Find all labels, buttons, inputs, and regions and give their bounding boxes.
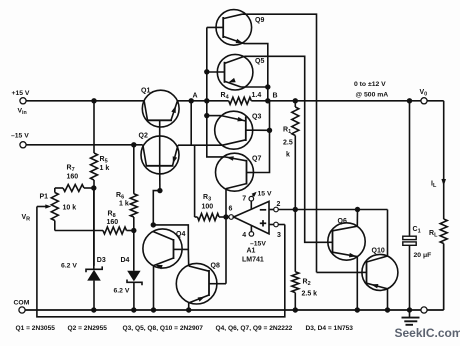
resistor R7 bbox=[63, 165, 94, 192]
transistor Q1 bbox=[141, 88, 179, 136]
junction Q5 base bbox=[204, 69, 209, 74]
svg-text:1 k: 1 k bbox=[100, 165, 110, 172]
junction Q4/COM bbox=[151, 307, 156, 312]
svg-text:@ 500 mA: @ 500 mA bbox=[356, 92, 389, 99]
junction pin2/Q6 collector bbox=[355, 207, 360, 212]
wire node A to R4 bbox=[177, 100, 228, 102]
svg-text:20 μF: 20 μF bbox=[414, 252, 432, 259]
svg-text:k: k bbox=[286, 152, 290, 159]
wiper arrow P1 bbox=[37, 204, 51, 208]
transistor Q5 bbox=[207, 54, 265, 90]
junction B-line/R1 bbox=[293, 98, 298, 103]
wire Q8 emitter bbox=[188, 303, 191, 310]
svg-text:Q5: Q5 bbox=[255, 58, 264, 65]
wire C1 bottom bbox=[409, 245, 411, 310]
junction Q4 base node bbox=[151, 222, 156, 227]
wire Q6 emitter bbox=[356, 257, 358, 310]
zener D4 bbox=[114, 257, 143, 310]
op-amp A1 triangle bbox=[234, 201, 269, 233]
wire Q4 base loop bbox=[153, 225, 188, 250]
svg-text:SeekIC.com: SeekIC.com bbox=[395, 326, 460, 340]
pin 2 bbox=[269, 201, 281, 212]
resistor R4 bbox=[221, 92, 262, 104]
wire Q2 lead to Q3 collector bbox=[178, 144, 223, 146]
wire R6 top bbox=[133, 145, 135, 194]
junction COM corner bbox=[443, 244, 445, 311]
wire pin2 to Q10 collector bbox=[387, 210, 389, 257]
capacitor C1 bbox=[403, 226, 431, 259]
svg-text:Q1: Q1 bbox=[141, 88, 150, 95]
transistor Q10 bbox=[362, 248, 398, 291]
resistor R2 bbox=[292, 210, 317, 311]
svg-text:+15 V: +15 V bbox=[12, 90, 30, 97]
resistor R1 bbox=[283, 101, 299, 159]
svg-text:3: 3 bbox=[277, 232, 281, 239]
transistor Q6 bbox=[328, 218, 365, 260]
svg-text:Q6: Q6 bbox=[338, 218, 347, 225]
terminal COM right bbox=[421, 307, 427, 313]
ground bbox=[402, 310, 420, 325]
terminal V0 bbox=[420, 89, 428, 104]
svg-text:Q2 = 2N2955: Q2 = 2N2955 bbox=[68, 325, 108, 332]
wire R6 to D4 bbox=[133, 217, 135, 271]
svg-text:–15 V: –15 V bbox=[11, 133, 29, 140]
svg-text:Q7: Q7 bbox=[252, 156, 261, 163]
transistor Q7 bbox=[216, 153, 262, 191]
resistor R6 bbox=[116, 192, 137, 217]
junction D3/COM bbox=[91, 307, 96, 312]
op-amp plus input symbol bbox=[260, 220, 266, 226]
wire VR to op-amp +input bbox=[37, 207, 285, 317]
junction Q5 emitter/B column bbox=[265, 84, 270, 89]
svg-text:Q9: Q9 bbox=[255, 17, 264, 24]
junction Q2 base node bbox=[157, 188, 162, 193]
wire Q9 collector bbox=[242, 14, 317, 272]
svg-text:4: 4 bbox=[242, 232, 246, 239]
svg-text:A: A bbox=[193, 93, 198, 100]
svg-text:Q2: Q2 bbox=[139, 133, 148, 140]
svg-text:6: 6 bbox=[229, 206, 233, 213]
svg-text:Q3, Q5, Q8, Q10 = 2N2907: Q3, Q5, Q8, Q10 = 2N2907 bbox=[123, 325, 204, 332]
svg-text:2.5: 2.5 bbox=[283, 140, 293, 147]
svg-text:0 to ±12 V: 0 to ±12 V bbox=[354, 81, 386, 88]
junction pin2/R1R2 bbox=[293, 207, 298, 212]
wire Q5 emitter bbox=[241, 86, 268, 88]
pin 4 bbox=[242, 226, 266, 248]
junction D4/COM bbox=[131, 307, 136, 312]
wire B to V0 bbox=[268, 100, 444, 102]
svg-text:160: 160 bbox=[67, 174, 79, 181]
svg-text:1.4: 1.4 bbox=[252, 92, 262, 99]
svg-text:Q4, Q6, Q7, Q9 = 2N2222: Q4, Q6, Q7, Q9 = 2N2222 bbox=[216, 325, 293, 332]
transistor Q9 bbox=[207, 10, 265, 46]
wire pin2 line bbox=[278, 209, 387, 211]
label A1 bbox=[247, 248, 256, 255]
svg-text:15 V: 15 V bbox=[258, 191, 272, 198]
pin 6 bbox=[229, 206, 234, 220]
svg-text:10 k: 10 k bbox=[63, 205, 77, 212]
wire Q10 emitter bbox=[387, 289, 389, 310]
wire R4 to B bbox=[251, 100, 267, 102]
label VR bbox=[22, 214, 31, 223]
wire A drop to Q2 bbox=[190, 101, 192, 145]
transistor Q3 bbox=[215, 111, 270, 149]
junction R8/R6/D4 bbox=[131, 228, 136, 233]
svg-text:D3, D4 = 1N753: D3, D4 = 1N753 bbox=[306, 325, 354, 332]
wire Q10 base bbox=[317, 271, 362, 273]
junction pin6/Q8 base bbox=[223, 214, 228, 219]
wire V0 right drop bbox=[443, 101, 445, 219]
wire R1 to pin2 bbox=[294, 136, 296, 210]
wire RL to COM bbox=[443, 244, 445, 311]
wire Q8 collector bbox=[187, 249, 189, 266]
op-amp minus input symbol bbox=[260, 209, 266, 211]
svg-text:160: 160 bbox=[107, 219, 119, 226]
junction Q8/COM bbox=[186, 307, 191, 312]
node B bbox=[265, 93, 277, 104]
svg-text:2: 2 bbox=[277, 201, 281, 208]
wire Q5 collector to Q6 base bbox=[245, 56, 329, 242]
svg-text:Q8: Q8 bbox=[211, 263, 220, 270]
svg-text:100: 100 bbox=[202, 204, 214, 211]
svg-text:P1: P1 bbox=[40, 194, 49, 201]
junction A/Q9Q5-base column bbox=[204, 98, 209, 103]
wire C1 top bbox=[409, 101, 411, 236]
wire Q6 collector bbox=[356, 210, 358, 227]
wire P1 bottom bbox=[55, 230, 103, 232]
wire -15V rail bbox=[26, 144, 142, 146]
wire R5 top bbox=[93, 101, 95, 153]
wire Q2 base to Q4 node bbox=[153, 191, 160, 225]
label Vin bbox=[18, 108, 27, 117]
svg-text:6.2 V: 6.2 V bbox=[61, 263, 77, 270]
svg-text:LM741: LM741 bbox=[242, 257, 264, 264]
terminal -15V input bbox=[11, 133, 29, 148]
junction R2/COM bbox=[293, 307, 298, 312]
pin 3 bbox=[269, 222, 281, 239]
svg-text:B: B bbox=[273, 93, 278, 100]
resistor R3 bbox=[195, 194, 219, 221]
svg-text:A1: A1 bbox=[247, 248, 256, 255]
resistor RL bbox=[429, 219, 447, 244]
pin 7 bbox=[242, 191, 272, 210]
transistor Q2 bbox=[139, 133, 180, 191]
wire Q7 collector to pin6 node bbox=[225, 189, 227, 217]
resistor R5 bbox=[91, 153, 110, 180]
svg-text:D3: D3 bbox=[97, 257, 106, 264]
wire pin3 stub bbox=[278, 224, 285, 226]
svg-text:D4: D4 bbox=[121, 257, 130, 264]
svg-text:Q10: Q10 bbox=[372, 248, 385, 255]
terminal +15V input bbox=[12, 90, 30, 104]
wire Q3 emitter bbox=[207, 115, 221, 117]
svg-text:2.5 k: 2.5 k bbox=[302, 291, 318, 298]
caption transistor types bbox=[16, 325, 293, 332]
wire +15V rail bbox=[26, 100, 144, 102]
label LM741 bbox=[242, 257, 264, 264]
terminal COM bbox=[14, 300, 30, 314]
transistor Q4 bbox=[143, 229, 186, 270]
wire A column to Q7 emitter bbox=[206, 101, 208, 157]
wire COM rail bbox=[25, 309, 444, 311]
wire Q8 base up bbox=[225, 217, 227, 284]
svg-text:Q1 = 2N3055: Q1 = 2N3055 bbox=[16, 325, 56, 332]
svg-text:Q4: Q4 bbox=[176, 231, 185, 238]
resistor R8 bbox=[103, 211, 134, 235]
node A bbox=[189, 93, 198, 104]
svg-text:–15V: –15V bbox=[250, 241, 266, 248]
junction Q10/COM bbox=[385, 307, 390, 312]
potentiometer P1 bbox=[40, 188, 77, 231]
watermark SeekIC.com bbox=[395, 326, 460, 340]
junction Q6/COM bbox=[355, 307, 360, 312]
wire R5 to R7 junction bbox=[93, 180, 95, 266]
wire Q9Q5 base column bbox=[206, 27, 208, 100]
junction +15V/R5 bbox=[91, 98, 96, 103]
svg-text:COM: COM bbox=[14, 300, 30, 307]
wire R3 to pin6 bbox=[219, 216, 229, 218]
svg-text:6.2 V: 6.2 V bbox=[114, 288, 130, 295]
wire Q4 emitter bbox=[153, 266, 155, 310]
wire B column down bbox=[254, 101, 270, 173]
junction Q3 emitter/A column bbox=[204, 113, 209, 118]
junction R7/R5/D3 bbox=[91, 185, 96, 190]
zener D3 bbox=[61, 257, 106, 310]
junction output/C1 bbox=[407, 98, 412, 103]
label output rating bbox=[354, 81, 388, 99]
current IL arrow bbox=[431, 178, 446, 189]
caption diode types bbox=[306, 325, 354, 332]
wire R3 column bbox=[194, 145, 196, 217]
svg-text:Q3: Q3 bbox=[252, 114, 261, 121]
junction -15V/R6 bbox=[131, 142, 136, 147]
wire D3 top bbox=[93, 188, 95, 269]
svg-text:7: 7 bbox=[242, 195, 246, 202]
transistor Q8 bbox=[176, 263, 226, 305]
wire Q7 emitter run bbox=[207, 156, 225, 158]
junction Q3 base bbox=[267, 128, 272, 133]
junction C1/COM bbox=[407, 307, 412, 312]
svg-text:1 k: 1 k bbox=[119, 201, 129, 208]
wire Q9 emitter to B column bbox=[244, 44, 268, 101]
